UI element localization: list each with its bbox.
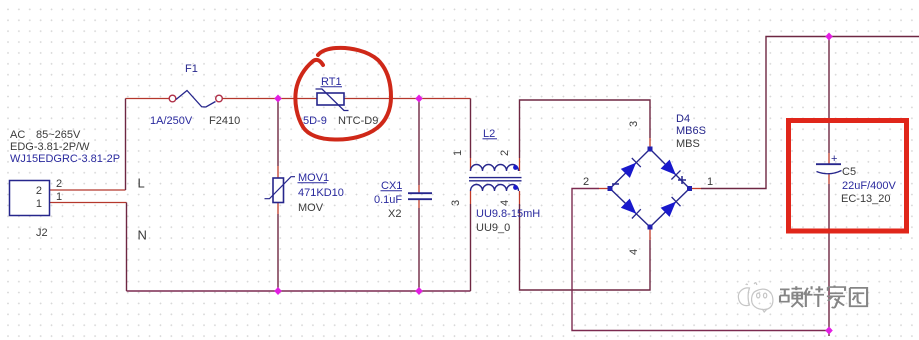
wire L2 pin2 to bridge top rail — [520, 100, 651, 171]
svg-text:85~265V: 85~265V — [36, 129, 81, 141]
svg-text:1: 1 — [56, 191, 62, 203]
annotation red circle around RT1 — [295, 48, 391, 140]
annotation red box around C5 — [789, 121, 907, 232]
wire CX1 branch top — [418, 99, 420, 194]
svg-text:L2: L2 — [483, 128, 495, 140]
svg-text:2: 2 — [56, 178, 62, 190]
label L2 — [483, 128, 498, 140]
wire J2 pin1 stub — [50, 202, 127, 204]
diode D4 bottom-left — [622, 199, 641, 218]
svg-text:2: 2 — [36, 185, 42, 197]
bridge minus sign — [612, 183, 619, 185]
junction dot top rail MOV — [274, 95, 282, 103]
junction dot top right rail C5 — [825, 33, 833, 41]
wire bridge pin1 to output plus rail — [690, 37, 919, 189]
svg-text:UU9.8-15mH: UU9.8-15mH — [476, 208, 540, 220]
svg-text:EC-13_20: EC-13_20 — [841, 193, 891, 205]
inductor L2 common mode choke — [469, 165, 522, 192]
svg-text:EDG-3.81-2P/W: EDG-3.81-2P/W — [10, 141, 90, 153]
svg-text:J2: J2 — [36, 227, 48, 239]
svg-text:471KD10: 471KD10 — [298, 187, 344, 199]
svg-text:1: 1 — [36, 198, 42, 210]
bridge rectifier D4 — [608, 147, 693, 230]
svg-text:L: L — [138, 176, 145, 191]
svg-text:X2: X2 — [388, 208, 401, 220]
svg-text:NTC-D9: NTC-D9 — [338, 115, 378, 127]
thermistor RT1 — [316, 89, 349, 111]
svg-text:RT1: RT1 — [321, 76, 342, 88]
svg-text:MOV1: MOV1 — [298, 172, 329, 184]
wire C5 branch top — [828, 37, 830, 165]
svg-text:2: 2 — [583, 176, 589, 188]
watermark logo icon — [738, 283, 773, 312]
svg-text:5D-9: 5D-9 — [303, 115, 327, 127]
svg-text:1A/250V: 1A/250V — [150, 115, 193, 127]
wire N bottom rail — [127, 290, 471, 292]
wire L2 pin4 to bridge bottom — [520, 191, 651, 290]
svg-text:3: 3 — [628, 121, 640, 127]
wire L2 pin1 — [470, 99, 472, 172]
junction dot bottom right rail C5 — [825, 327, 833, 335]
svg-text:AC: AC — [10, 129, 25, 141]
varistor MOV1 — [265, 177, 296, 203]
svg-text:F1: F1 — [185, 63, 198, 75]
wire C5 branch bottom — [828, 173, 830, 336]
bridge plus sign — [678, 179, 686, 181]
svg-text:4: 4 — [499, 200, 511, 206]
connector J2 — [10, 181, 50, 216]
label MOV1 — [298, 172, 330, 184]
diode D4 top-right — [661, 160, 680, 179]
svg-text:1: 1 — [452, 150, 464, 156]
svg-text:C5: C5 — [842, 166, 856, 178]
svg-text:WJ15EDGRC-3.81-2P: WJ15EDGRC-3.81-2P — [10, 153, 120, 165]
svg-text:0.1uF: 0.1uF — [374, 194, 402, 206]
svg-text:D4: D4 — [676, 113, 690, 125]
svg-text:+: + — [831, 153, 837, 165]
svg-text:22uF/400V: 22uF/400V — [842, 180, 896, 192]
wire J2 pin2 stub — [50, 189, 126, 191]
svg-text:MBS: MBS — [676, 138, 700, 150]
svg-text:CX1: CX1 — [381, 180, 402, 192]
diode D4 bottom-right — [661, 197, 680, 216]
svg-text:UU9_0: UU9_0 — [476, 222, 510, 234]
diode D4 top-left — [622, 158, 641, 177]
junction dot top rail CX1 — [415, 95, 423, 103]
wire MOV branch — [277, 99, 279, 292]
wire CX1 branch bottom — [418, 199, 420, 291]
wire N vertical — [126, 203, 128, 292]
svg-text:4: 4 — [628, 249, 640, 255]
svg-text:3: 3 — [450, 200, 462, 206]
fuse F1 — [169, 91, 222, 108]
wire bridge pin2 to output minus rail — [572, 189, 829, 331]
capacitor C5 — [816, 153, 842, 174]
svg-text:MOV: MOV — [298, 202, 324, 214]
junction dot bottom rail CX1 — [415, 287, 423, 295]
svg-text:F2410: F2410 — [209, 115, 240, 127]
label RT1 — [321, 76, 343, 88]
label CX1 — [381, 180, 403, 192]
svg-text:MB6S: MB6S — [676, 125, 706, 137]
capacitor CX1 — [408, 193, 432, 199]
svg-text:N: N — [138, 228, 147, 243]
watermark text 硬件家园 — [780, 286, 867, 308]
wire L vertical — [125, 99, 127, 191]
junction dot bottom rail MOV — [274, 287, 282, 295]
wire L top rail — [126, 98, 471, 100]
svg-text:2: 2 — [499, 150, 511, 156]
wire L2 pin3 — [470, 191, 472, 291]
svg-text:1: 1 — [707, 176, 713, 188]
